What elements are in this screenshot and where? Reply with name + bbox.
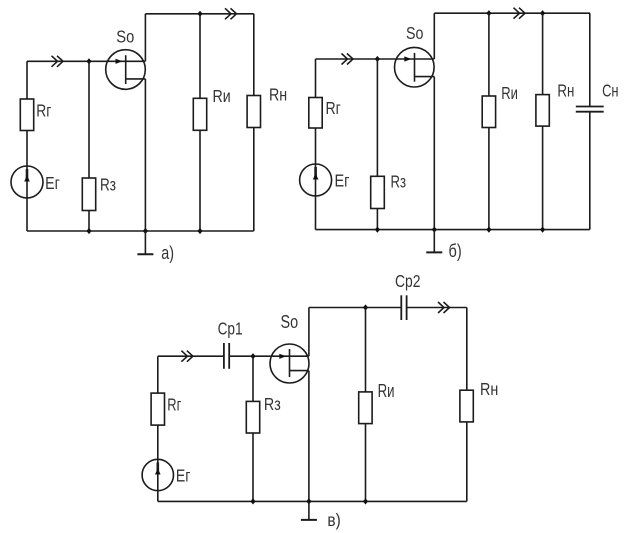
signal arrow on gate wire a	[52, 56, 64, 67]
wire Rn branch v	[466, 308, 468, 502]
resistor Ri a	[193, 98, 206, 130]
wire gate line b	[316, 58, 435, 60]
resistor Ri v	[359, 392, 372, 424]
wire bottom rail v	[158, 500, 467, 502]
resistor Rz v	[246, 401, 259, 433]
wire top rail v right	[407, 307, 467, 309]
svg-text:Rн: Rн	[557, 82, 574, 101]
resistor Rg a	[20, 99, 33, 131]
transistor So v	[270, 344, 309, 383]
svg-text:Rг: Rг	[326, 98, 341, 118]
wire Rz branch v	[252, 356, 254, 501]
wire source b	[433, 77, 435, 230]
svg-text:в): в)	[327, 510, 340, 530]
wire Rn branch a	[253, 14, 255, 231]
node top rail Ri a	[197, 11, 202, 17]
ground v	[301, 501, 317, 520]
resistor Rn b	[536, 95, 549, 127]
wire drain b	[433, 13, 435, 59]
node bottom Ri b	[486, 227, 491, 233]
node bottom Ri a	[197, 228, 202, 234]
svg-text:Ег: Ег	[45, 173, 60, 193]
svg-text:Ср2: Ср2	[395, 271, 421, 291]
wire gate line a	[27, 60, 145, 62]
capacitor Cn b	[576, 107, 604, 112]
wire Cn bottom b	[589, 112, 591, 230]
svg-text:So: So	[281, 312, 299, 332]
wire drain v	[308, 308, 310, 357]
node top rail Ri v	[363, 304, 368, 310]
wire top rail a	[145, 13, 253, 15]
wire Ri branch v	[365, 308, 367, 502]
svg-text:Ег: Ег	[176, 466, 191, 486]
svg-text:б): б)	[449, 242, 462, 262]
wire top rail b	[434, 12, 590, 14]
wire Cn top b	[589, 13, 591, 106]
signal arrow on gate wire b	[342, 54, 354, 65]
node gate-Rz junction a	[86, 58, 91, 64]
svg-text:Rи: Rи	[501, 84, 518, 103]
node gate-Rz junction b	[375, 56, 380, 62]
svg-text:Ег: Ег	[335, 171, 350, 191]
svg-text:Rн: Rн	[480, 379, 498, 399]
resistor Rn v	[460, 390, 473, 422]
svg-text:Сн: Сн	[602, 82, 618, 102]
wire gate line v right	[229, 355, 309, 357]
resistor Rg v	[151, 393, 164, 425]
transistor So a	[106, 50, 146, 90]
node gate-Rz junction v	[250, 353, 255, 359]
source Eg b	[300, 164, 332, 196]
wire gate line v left	[158, 355, 224, 357]
svg-text:а): а)	[161, 244, 174, 264]
node top rail Ri b	[486, 10, 491, 16]
svg-text:Rг: Rг	[167, 396, 181, 416]
node bottom source v	[306, 498, 311, 504]
wire drain a	[144, 14, 146, 62]
svg-text:Rи: Rи	[213, 86, 231, 106]
node bottom Rn b	[540, 227, 545, 233]
capacitor Cp2 v	[401, 295, 406, 320]
node bottom Ri v	[363, 498, 368, 504]
wire Rz branch b	[376, 59, 378, 230]
svg-text:Rз: Rз	[264, 395, 281, 415]
node bottom source b	[432, 227, 437, 233]
ground b	[426, 230, 442, 253]
resistor Rg b	[309, 98, 322, 129]
svg-text:Rг: Rг	[36, 101, 51, 121]
capacitor Cp1 v	[224, 343, 229, 369]
resistor Rz b	[371, 176, 385, 208]
svg-text:Rз: Rз	[391, 172, 407, 191]
resistor Ri b	[482, 96, 495, 128]
wire source v	[308, 371, 310, 502]
wire Rn branch b	[542, 13, 544, 229]
node bottom source a	[143, 228, 148, 234]
wire bottom rail b	[316, 229, 590, 231]
wire left branch b	[315, 59, 317, 230]
signal arrow on top rail a	[225, 8, 237, 19]
svg-text:Rи: Rи	[378, 382, 395, 401]
wire bottom rail a	[27, 230, 254, 232]
node bottom Rz a	[86, 228, 91, 234]
node top rail Rn b	[540, 10, 545, 16]
wire top rail v left	[309, 307, 401, 309]
signal arrow on gate wire v	[181, 351, 193, 362]
wire Rz branch a	[88, 61, 90, 231]
signal arrow on top rail v	[438, 302, 450, 313]
resistor Rz a	[82, 178, 95, 211]
svg-text:Rз: Rз	[100, 176, 116, 195]
node bottom Rz b	[375, 227, 380, 233]
source Eg a	[11, 166, 43, 198]
svg-text:So: So	[116, 27, 134, 47]
transistor So b	[395, 47, 435, 87]
svg-text:So: So	[406, 23, 423, 43]
ground a	[137, 231, 153, 254]
wire left branch a	[26, 61, 28, 231]
wire Ri branch a	[199, 14, 201, 231]
wire left branch v	[157, 356, 159, 501]
svg-text:Ср1: Ср1	[218, 320, 243, 339]
svg-text:Rн: Rн	[269, 85, 287, 105]
signal arrow on top rail b	[514, 8, 526, 19]
source Eg v	[142, 459, 173, 490]
resistor Rn a	[247, 96, 260, 128]
node bottom Rz v	[250, 498, 255, 504]
wire source a	[144, 79, 146, 231]
wire Ri branch b	[488, 13, 490, 229]
